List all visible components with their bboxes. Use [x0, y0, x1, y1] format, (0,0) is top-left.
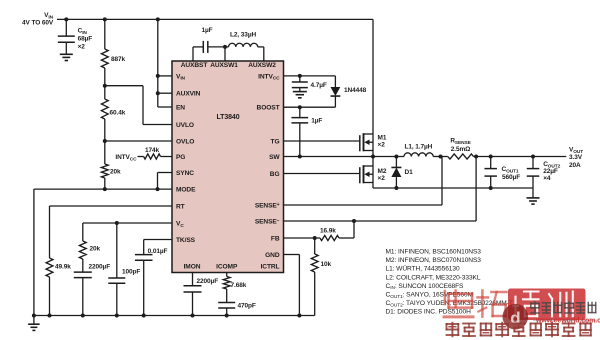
svg-text:AUXVIN: AUXVIN	[176, 91, 201, 98]
svg-text:RT: RT	[176, 203, 185, 210]
svg-text:10k: 10k	[321, 261, 332, 268]
svg-text:FB: FB	[271, 235, 280, 242]
svg-text:2200µF: 2200µF	[197, 278, 219, 285]
svg-text:IMON: IMON	[184, 264, 201, 271]
svg-text:EN: EN	[176, 104, 185, 111]
svg-text:GND: GND	[265, 252, 280, 259]
svg-text:PG: PG	[176, 154, 185, 161]
svg-text:AUXSW1: AUXSW1	[210, 62, 238, 69]
svg-text:SYNC: SYNC	[176, 170, 194, 177]
svg-text:UVLO: UVLO	[176, 122, 194, 129]
svg-text:ICOMP: ICOMP	[216, 264, 238, 271]
svg-text:CIN: SUNCON 100CE68FS: CIN: SUNCON 100CE68FS	[386, 283, 465, 291]
svg-text:LT3840: LT3840	[216, 114, 239, 121]
svg-text:100pF: 100pF	[122, 269, 140, 276]
svg-text:INTVCC: INTVCC	[115, 154, 137, 162]
svg-text:AUXBST: AUXBST	[181, 62, 208, 69]
svg-text:2.5mΩ: 2.5mΩ	[451, 146, 471, 153]
svg-text:560µF: 560µF	[502, 174, 520, 181]
svg-text:4.7µF: 4.7µF	[311, 82, 327, 89]
svg-text:L2: COILCRAFT, ME3220-333KL: L2: COILCRAFT, ME3220-333KL	[386, 274, 481, 281]
svg-text:2200µF: 2200µF	[89, 264, 111, 271]
svg-text:D1: D1	[405, 169, 414, 176]
svg-text:TK/SS: TK/SS	[176, 237, 196, 244]
svg-text:OVLO: OVLO	[176, 138, 194, 145]
svg-text:3.3V: 3.3V	[569, 154, 583, 161]
svg-text:L1, 1.7µH: L1, 1.7µH	[405, 144, 433, 151]
svg-text:20k: 20k	[110, 169, 121, 176]
svg-text:SENSE+: SENSE+	[255, 202, 280, 210]
svg-text:×2: ×2	[378, 142, 386, 149]
svg-text:174k: 174k	[145, 147, 160, 154]
svg-text:SW: SW	[269, 154, 280, 161]
svg-text:68µF: 68µF	[78, 35, 93, 42]
svg-text:TG: TG	[271, 138, 280, 145]
svg-text:×4: ×4	[543, 175, 551, 182]
svg-text:M2: INFINEON, BSC070N10NS3: M2: INFINEON, BSC070N10NS3	[386, 257, 482, 264]
svg-text:AUXSW2: AUXSW2	[248, 62, 276, 69]
svg-text:22µF: 22µF	[543, 168, 558, 175]
svg-text:M1: M1	[378, 135, 387, 142]
svg-text:1µF: 1µF	[202, 27, 213, 34]
svg-text:49.9k: 49.9k	[55, 264, 71, 271]
svg-text:BG: BG	[270, 171, 280, 178]
svg-text:7.68k: 7.68k	[231, 282, 247, 289]
svg-text:887k: 887k	[111, 56, 126, 63]
svg-text:M1: INFINEON, BSC160N10NS3: M1: INFINEON, BSC160N10NS3	[386, 249, 482, 256]
svg-text:4V TO 60V: 4V TO 60V	[22, 20, 54, 27]
svg-text:×2: ×2	[378, 175, 386, 182]
svg-text:20A: 20A	[569, 162, 581, 169]
svg-text:0.01µF: 0.01µF	[148, 248, 168, 255]
svg-text:1N4448: 1N4448	[344, 87, 367, 94]
svg-text:MODE: MODE	[176, 187, 196, 194]
svg-text:M2: M2	[378, 168, 387, 175]
svg-text:16.9k: 16.9k	[320, 228, 336, 235]
svg-text:20k: 20k	[90, 246, 101, 253]
svg-text:1µF: 1µF	[311, 118, 322, 125]
svg-text:470pF: 470pF	[238, 303, 256, 310]
svg-text:L1: WÜRTH, 7443556130: L1: WÜRTH, 7443556130	[386, 265, 460, 273]
svg-text:ICTRL: ICTRL	[261, 264, 280, 271]
svg-text:BOOST: BOOST	[257, 105, 280, 112]
svg-text:D1: DIODES INC. PDS5100H: D1: DIODES INC. PDS5100H	[386, 308, 472, 315]
svg-text:RSENSE: RSENSE	[450, 138, 471, 146]
svg-text:60.4k: 60.4k	[110, 110, 126, 117]
svg-text:×2: ×2	[78, 43, 86, 50]
svg-text:L2, 33µH: L2, 33µH	[230, 32, 256, 39]
svg-text:SENSE−: SENSE−	[255, 218, 280, 226]
